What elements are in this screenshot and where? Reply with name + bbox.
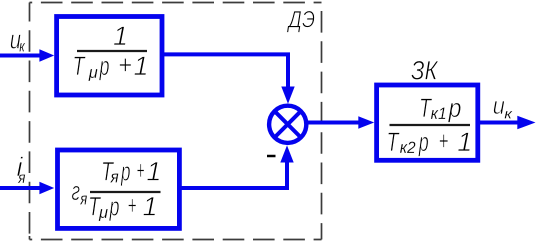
svg-text:+: + [137, 156, 145, 186]
svg-text:я: я [17, 170, 26, 187]
svg-text:+: + [128, 191, 137, 221]
svg-text:я: я [80, 190, 88, 209]
svg-text:ДЭ: ДЭ [286, 7, 315, 34]
svg-text:ЗК: ЗК [411, 55, 439, 85]
svg-text:μ: μ [88, 63, 99, 82]
svg-text:к2: к2 [400, 138, 416, 157]
svg-text:1: 1 [457, 127, 472, 157]
svg-text:р: р [120, 157, 130, 187]
svg-text:+: + [118, 50, 132, 80]
svg-text:я: я [110, 168, 119, 187]
svg-text:Т: Т [387, 127, 401, 157]
svg-text:1: 1 [146, 157, 161, 187]
svg-text:1: 1 [113, 21, 128, 51]
svg-text:u: u [493, 93, 505, 120]
svg-text:к: к [19, 38, 26, 55]
svg-text:р: р [99, 51, 110, 81]
svg-text:1: 1 [134, 51, 149, 81]
svg-text:р: р [418, 127, 429, 157]
svg-text:+: + [439, 126, 449, 156]
svg-text:г: г [72, 176, 81, 206]
svg-text:Т: Т [73, 51, 87, 81]
svg-text:μ: μ [98, 203, 109, 222]
svg-text:к: к [504, 106, 513, 122]
svg-text:1: 1 [143, 192, 158, 222]
svg-text:р: р [448, 93, 462, 123]
svg-text:р: р [109, 192, 120, 222]
svg-text:к1: к1 [431, 104, 447, 123]
